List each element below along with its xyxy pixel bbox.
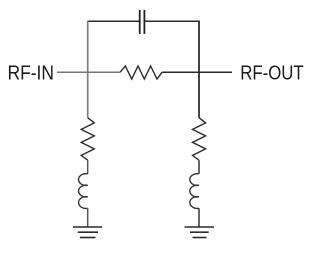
resistor R3 — [193, 118, 206, 161]
node A left junction — [87, 71, 89, 73]
wire R3 to L2 — [198, 160, 200, 174]
wire R1 to RF-OUT — [162, 71, 232, 73]
wire L2 to ground — [198, 208, 200, 227]
wire right shunt upper — [198, 72, 200, 118]
wire top branch right — [145, 20, 199, 22]
wire left vertical upper — [87, 21, 89, 72]
wire left shunt upper — [87, 72, 89, 118]
svg-text:RF-OUT: RF-OUT — [240, 62, 304, 85]
resistor R1 — [120, 66, 162, 79]
capacitor C1 — [140, 10, 145, 34]
ground left — [73, 227, 102, 238]
wire L1 to ground — [87, 208, 89, 227]
node B right junction — [198, 71, 200, 73]
svg-text:RF-IN: RF-IN — [8, 62, 55, 85]
wire top branch left — [88, 20, 139, 22]
inductor L1 — [79, 174, 88, 209]
wire right vertical upper — [198, 21, 200, 72]
wire RF-IN lead — [57, 71, 120, 73]
wire R2 to L1 — [87, 160, 89, 174]
ground right — [185, 227, 215, 238]
resistor R2 — [81, 118, 94, 161]
inductor L2 — [190, 174, 199, 209]
